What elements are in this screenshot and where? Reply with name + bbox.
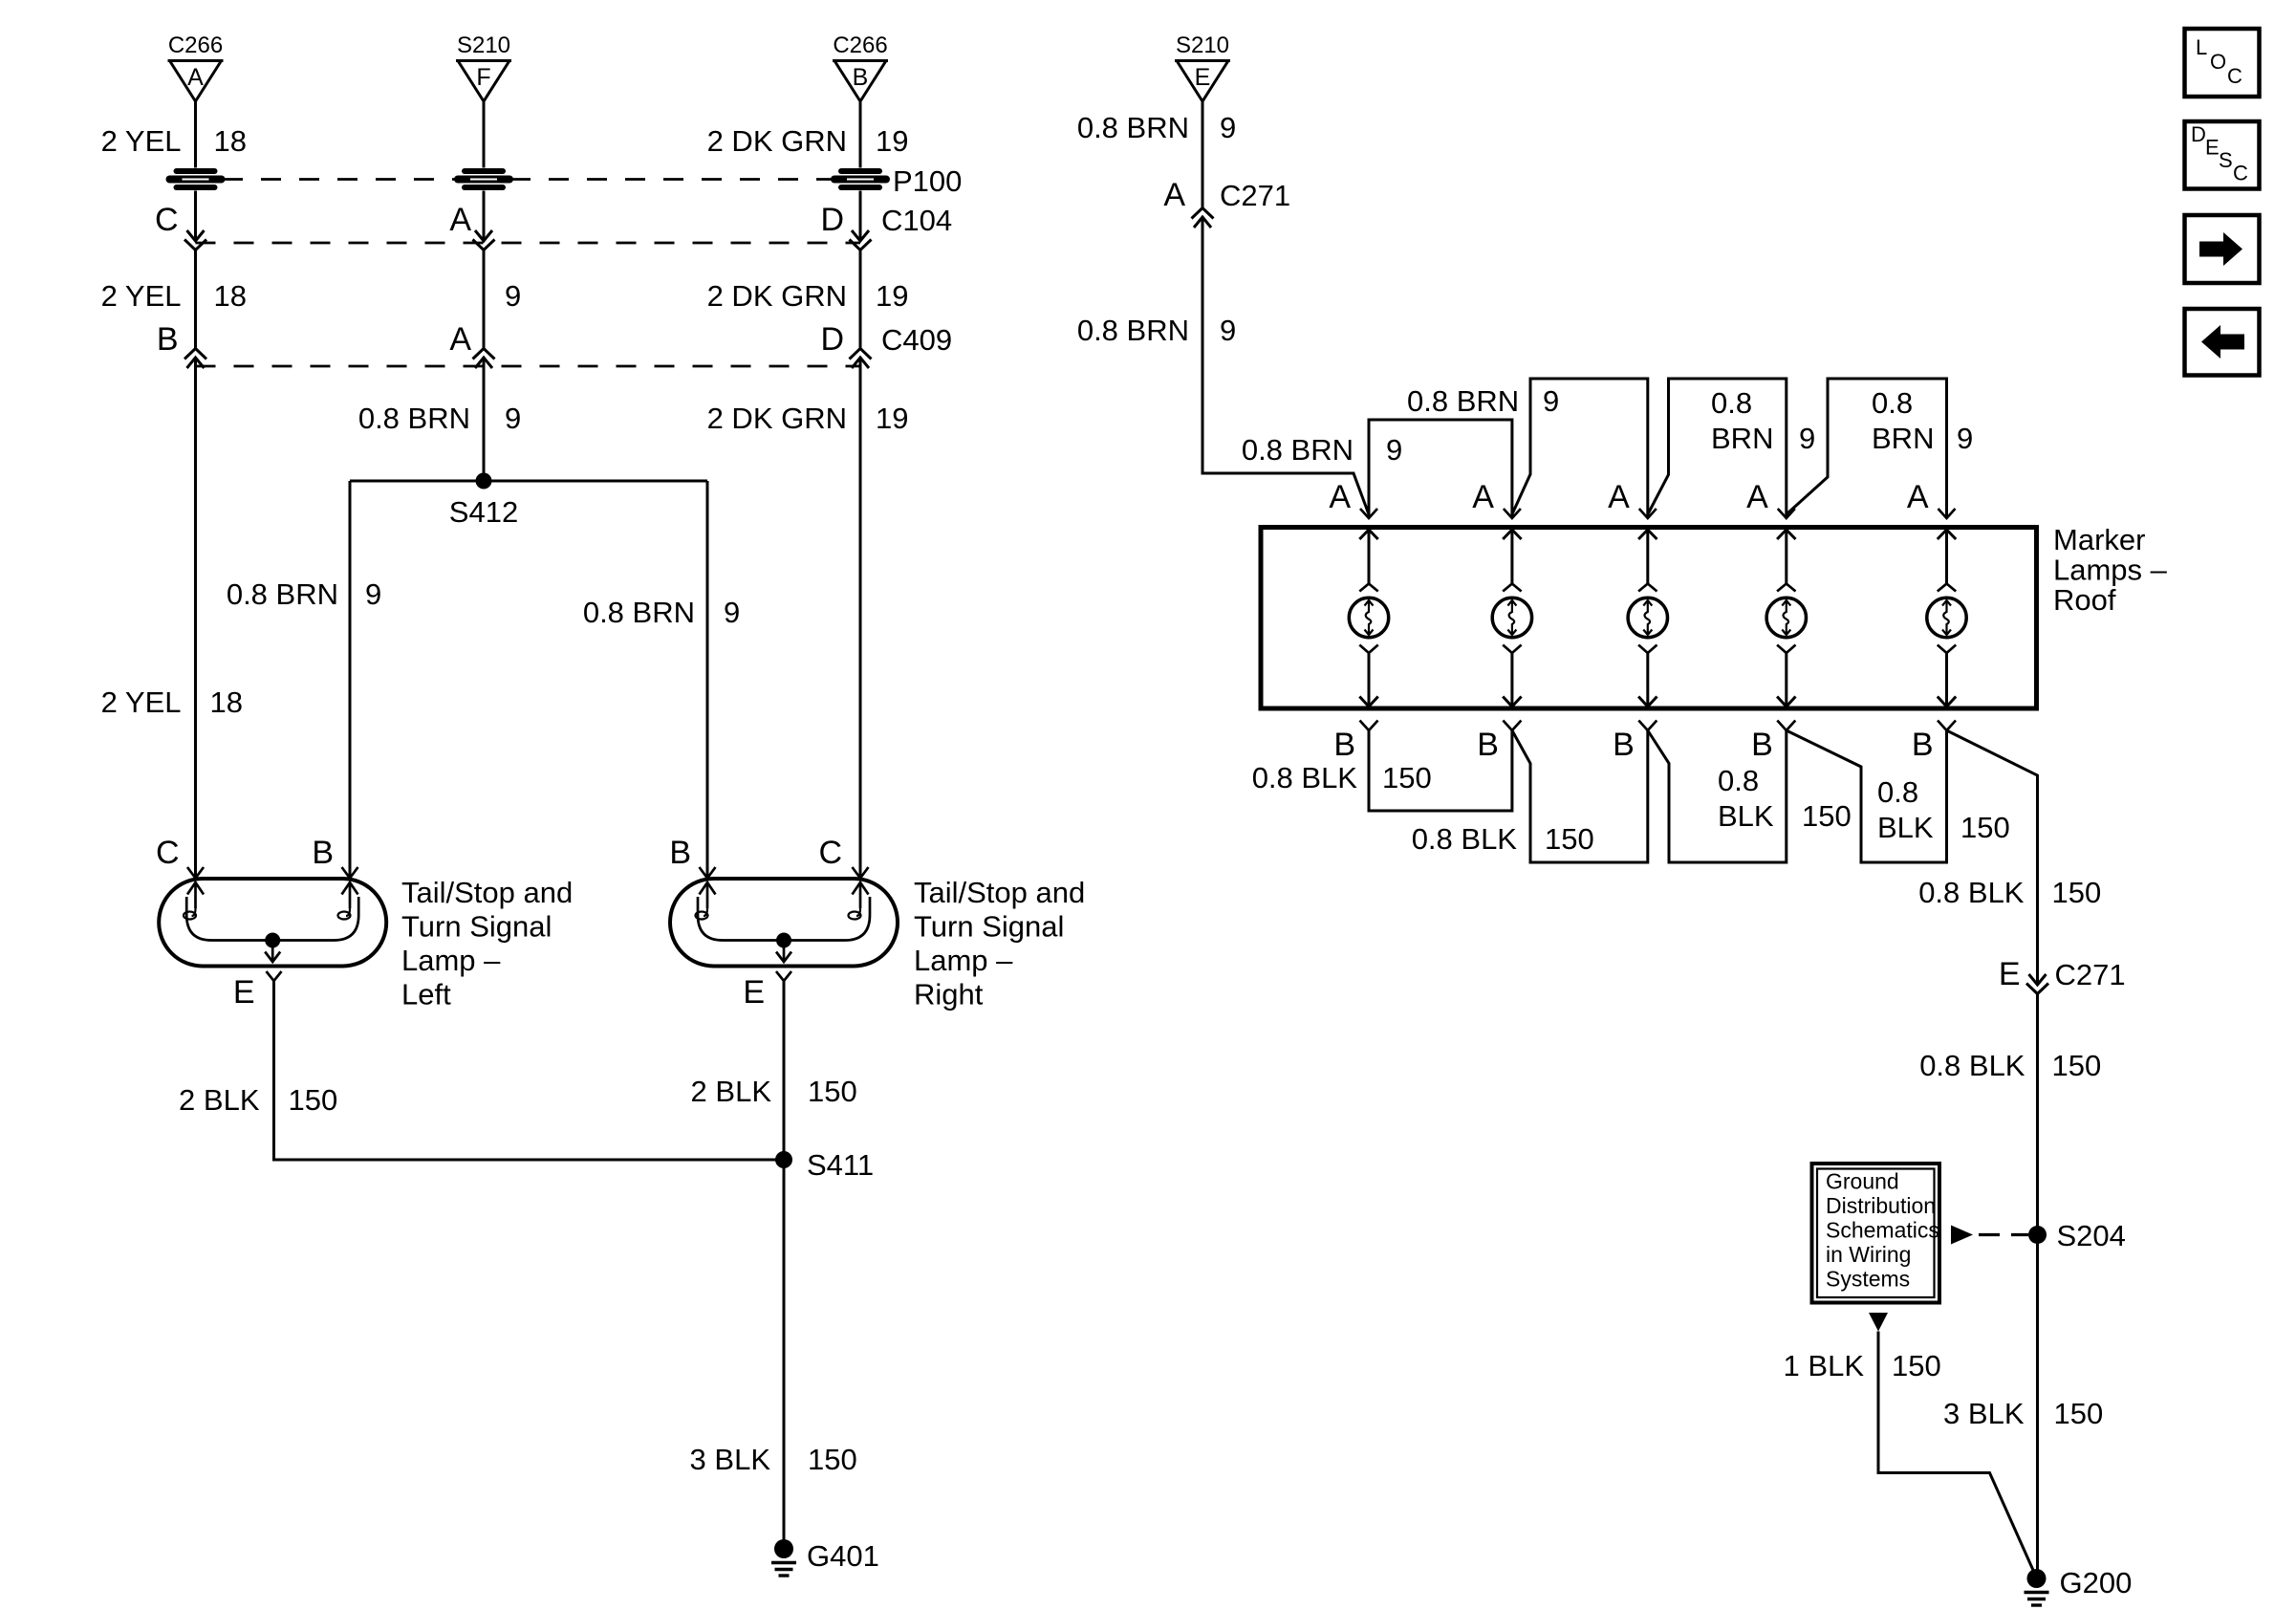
prev arrow icon box	[2185, 309, 2260, 376]
terminal chevron B left lamp	[342, 867, 358, 879]
svg-text:0.8 BLK: 0.8 BLK	[1918, 876, 2025, 909]
svg-text:B: B	[1613, 727, 1635, 763]
inline connector C104 on W3	[852, 230, 869, 241]
wire W3 from C266-B to grommet	[859, 101, 862, 168]
svg-text:2 BLK: 2 BLK	[179, 1083, 260, 1117]
svg-text:G401: G401	[807, 1539, 879, 1573]
svg-text:150: 150	[2054, 1397, 2104, 1430]
svg-text:18: 18	[214, 124, 247, 158]
wire E left lamp down and right to S411	[274, 981, 785, 1160]
terminal chevron C right lamp	[853, 867, 869, 879]
svg-text:150: 150	[1802, 799, 1852, 833]
svg-text:2 DK GRN: 2 DK GRN	[707, 124, 847, 158]
svg-text:Tail/Stop and: Tail/Stop and	[914, 876, 1085, 909]
svg-text:L: L	[2196, 35, 2207, 59]
svg-text:C104: C104	[881, 204, 952, 237]
inline connector C271-A	[1194, 217, 1211, 228]
triangle tap below box	[1869, 1313, 1888, 1332]
svg-text:F: F	[476, 64, 490, 91]
DESC icon box	[2185, 121, 2260, 189]
svg-text:C: C	[2227, 64, 2242, 88]
svg-text:0.8 BRN: 0.8 BRN	[1077, 314, 1189, 347]
wire link B3	[1648, 730, 1787, 862]
svg-text:E: E	[2205, 136, 2220, 160]
svg-text:A: A	[1472, 479, 1494, 515]
svg-text:2 DK GRN: 2 DK GRN	[707, 279, 847, 313]
terminal chevron A marker lamp 3	[1639, 509, 1657, 518]
svg-text:A: A	[1163, 177, 1185, 213]
dashed connector line C104	[196, 242, 861, 245]
ground G401	[774, 1539, 793, 1558]
dashed firewall line P100	[223, 178, 457, 181]
svg-text:A: A	[449, 321, 471, 358]
svg-text:Roof: Roof	[2053, 583, 2116, 617]
svg-text:B: B	[157, 321, 179, 358]
wire W3 C104 to C409	[859, 250, 862, 349]
terminal chevron A marker lamp 4	[1778, 509, 1795, 518]
svg-text:D: D	[2191, 122, 2206, 146]
svg-text:S210: S210	[1176, 33, 1229, 58]
svg-text:0.8: 0.8	[1718, 764, 1759, 797]
wire W2 C104 to C409	[483, 250, 486, 349]
wire W1 grommet to C104	[194, 191, 197, 242]
svg-text:S: S	[2219, 148, 2233, 172]
svg-text:0.8 BLK: 0.8 BLK	[1919, 1049, 2025, 1082]
terminal chevron C left lamp	[187, 867, 204, 879]
svg-text:B: B	[853, 64, 869, 91]
inline connector C409 on W2	[475, 358, 492, 368]
terminal chevron E right lamp	[776, 971, 791, 981]
wire W2 C409 to splice S412	[483, 358, 486, 481]
svg-text:19: 19	[876, 402, 908, 435]
terminal chevron B marker lamp 3	[1638, 721, 1657, 731]
tail/stop and turn signal lamp right	[670, 879, 898, 967]
inline connector C104 on W1	[187, 230, 205, 241]
svg-text:Left: Left	[401, 978, 451, 1012]
svg-text:C: C	[2233, 162, 2248, 185]
terminal chevron E left lamp	[267, 971, 282, 981]
svg-text:9: 9	[1957, 422, 1973, 455]
svg-text:150: 150	[1892, 1349, 1941, 1382]
wire link A2	[1512, 379, 1648, 517]
svg-text:B: B	[1751, 727, 1773, 763]
wire W3 C409 to right lamp pin C	[859, 358, 862, 879]
svg-text:B: B	[1333, 727, 1355, 763]
splice S412 dot	[476, 473, 492, 490]
svg-text:C409: C409	[881, 323, 952, 357]
svg-text:0.8 BRN: 0.8 BRN	[1077, 111, 1189, 144]
terminal chevron B marker lamp 4	[1777, 721, 1795, 731]
svg-text:150: 150	[2052, 876, 2102, 909]
tail/stop and turn signal lamp left	[159, 879, 386, 967]
svg-text:D: D	[820, 202, 844, 238]
marker lamp bulb 4	[1777, 530, 1795, 539]
wire link A4	[1787, 379, 1947, 517]
svg-text:18: 18	[214, 279, 247, 313]
svg-text:E: E	[1195, 64, 1211, 91]
svg-text:150: 150	[1960, 811, 2010, 844]
svg-text:B: B	[1477, 727, 1499, 763]
svg-text:0.8 BRN: 0.8 BRN	[227, 577, 338, 611]
svg-text:0.8: 0.8	[1872, 386, 1913, 420]
splice S204 dot	[2028, 1226, 2047, 1244]
svg-text:3 BLK: 3 BLK	[1943, 1397, 2025, 1430]
wire from S210-E down	[1202, 101, 1204, 207]
dashed connector line C409	[196, 365, 861, 368]
svg-text:A: A	[1329, 479, 1351, 515]
svg-text:C: C	[156, 835, 180, 871]
wire S412 right branch down	[706, 481, 709, 879]
svg-text:D: D	[820, 321, 844, 358]
svg-text:E: E	[1999, 956, 2021, 992]
svg-text:9: 9	[505, 279, 521, 313]
svg-text:Schematics: Schematics	[1826, 1218, 1939, 1243]
wire W1 C104 to C409	[194, 250, 197, 349]
arrowhead from box to S204	[1951, 1226, 1973, 1245]
svg-text:9: 9	[1799, 422, 1815, 455]
wire S411 to G401	[783, 1160, 786, 1549]
wire S204 to G200	[2036, 1235, 2039, 1579]
svg-text:3 BLK: 3 BLK	[690, 1443, 771, 1476]
svg-text:BRN: BRN	[1711, 422, 1773, 455]
svg-text:Right: Right	[914, 978, 984, 1012]
svg-text:9: 9	[505, 402, 521, 435]
svg-text:P100: P100	[893, 164, 962, 198]
svg-text:A: A	[1907, 479, 1929, 515]
svg-text:150: 150	[1545, 822, 1594, 856]
svg-text:E: E	[233, 974, 255, 1011]
wire C271-E to S204	[2036, 994, 2039, 1234]
svg-text:150: 150	[289, 1083, 338, 1117]
svg-text:Turn Signal: Turn Signal	[401, 910, 552, 944]
svg-text:150: 150	[808, 1075, 857, 1108]
terminal chevron B marker lamp 2	[1503, 721, 1521, 731]
svg-text:C: C	[155, 202, 179, 238]
terminal chevron A marker lamp 2	[1504, 509, 1521, 518]
inline connector C104 on W2	[475, 230, 492, 241]
svg-text:2 BLK: 2 BLK	[691, 1075, 772, 1108]
marker lamp bulb 1	[1359, 530, 1377, 539]
svg-text:18: 18	[210, 685, 243, 719]
marker lamp bulb 5	[1938, 530, 1956, 539]
svg-text:9: 9	[1386, 433, 1402, 467]
svg-text:C266: C266	[168, 33, 223, 58]
svg-text:S411: S411	[807, 1148, 874, 1182]
svg-text:0.8: 0.8	[1711, 386, 1752, 420]
svg-text:2 DK GRN: 2 DK GRN	[707, 402, 847, 435]
svg-text:S204: S204	[2057, 1219, 2126, 1252]
svg-text:0.8 BRN: 0.8 BRN	[1407, 384, 1519, 418]
marker lamp bulb 2	[1503, 530, 1521, 539]
terminal chevron B marker lamp 1	[1360, 721, 1378, 731]
wire link B4	[1787, 730, 1947, 862]
svg-text:BLK: BLK	[1877, 811, 1934, 844]
svg-text:9: 9	[365, 577, 381, 611]
svg-text:C271: C271	[1220, 179, 1290, 212]
svg-text:9: 9	[724, 596, 740, 629]
svg-text:Ground: Ground	[1826, 1169, 1899, 1194]
svg-text:O: O	[2210, 50, 2226, 74]
svg-text:A: A	[187, 64, 204, 91]
svg-text:S412: S412	[449, 495, 518, 529]
wire W2 from S210-F to grommet	[483, 101, 486, 168]
wire W1 C409 to left lamp pin C	[194, 358, 197, 879]
svg-text:Systems: Systems	[1826, 1267, 1910, 1292]
svg-text:Lamps –: Lamps –	[2053, 554, 2168, 587]
terminal chevron B right lamp	[700, 867, 716, 879]
svg-text:19: 19	[876, 124, 908, 158]
svg-text:Turn Signal: Turn Signal	[914, 910, 1064, 944]
svg-text:B: B	[312, 835, 334, 871]
terminal chevron B marker lamp 5	[1938, 721, 1956, 731]
wire S412 left branch down	[349, 481, 352, 879]
dashed link to S204	[1979, 1233, 2000, 1236]
splice S412 horizontal	[350, 480, 707, 483]
svg-text:9: 9	[1543, 384, 1559, 418]
svg-text:0.8 BRN: 0.8 BRN	[1242, 433, 1354, 467]
wire link B2	[1512, 730, 1648, 862]
grommet P100 on wire W1	[177, 168, 215, 174]
svg-text:0.8 BLK: 0.8 BLK	[1412, 822, 1518, 856]
svg-text:0.8 BRN: 0.8 BRN	[583, 596, 695, 629]
wire link B1	[1369, 730, 1512, 811]
svg-text:150: 150	[808, 1443, 857, 1476]
svg-text:in Wiring: in Wiring	[1826, 1242, 1911, 1267]
svg-text:A: A	[1608, 479, 1630, 515]
svg-text:150: 150	[1382, 761, 1432, 794]
svg-text:0.8: 0.8	[1877, 775, 1918, 809]
svg-text:A: A	[1746, 479, 1768, 515]
svg-text:Distribution: Distribution	[1826, 1193, 1936, 1218]
svg-text:E: E	[743, 974, 765, 1011]
svg-text:2 YEL: 2 YEL	[101, 279, 182, 313]
svg-text:BRN: BRN	[1872, 422, 1934, 455]
wire C271 to corner and to lamp1	[1202, 217, 1369, 514]
svg-text:G200: G200	[2060, 1566, 2133, 1599]
wire link A1	[1369, 420, 1512, 517]
svg-text:0.8 BLK: 0.8 BLK	[1252, 761, 1358, 794]
svg-text:9: 9	[1220, 111, 1236, 144]
svg-text:C271: C271	[2055, 958, 2126, 991]
terminal chevron A marker lamp 1	[1360, 509, 1377, 518]
svg-text:Lamp –: Lamp –	[914, 944, 1013, 977]
LOC icon box	[2185, 29, 2260, 97]
wire from box tap to G200	[1878, 1332, 2036, 1577]
grommet P100 on wire W3	[841, 168, 879, 174]
wire link A3	[1648, 379, 1787, 517]
wire W2 grommet to C104	[483, 191, 486, 242]
svg-text:2 YEL: 2 YEL	[101, 685, 182, 719]
inline connector C271-E	[2029, 974, 2047, 985]
svg-text:A: A	[449, 202, 471, 238]
splice S411 dot	[775, 1151, 792, 1168]
grommet P100 on wire W2	[465, 168, 503, 174]
wire lamp5 B to ground wire	[1947, 730, 2038, 985]
svg-text:Tail/Stop and: Tail/Stop and	[401, 876, 573, 909]
svg-text:B: B	[669, 835, 691, 871]
next arrow icon box	[2185, 215, 2260, 283]
svg-text:Lamp –: Lamp –	[401, 944, 501, 977]
svg-text:2 YEL: 2 YEL	[101, 124, 182, 158]
svg-text:C266: C266	[833, 33, 887, 58]
marker lamps roof box	[1261, 528, 2037, 709]
marker lamp bulb 3	[1638, 530, 1657, 539]
svg-text:0.8 BRN: 0.8 BRN	[358, 402, 470, 435]
svg-text:19: 19	[876, 279, 908, 313]
svg-text:S210: S210	[457, 33, 510, 58]
svg-text:Marker: Marker	[2053, 523, 2145, 556]
svg-text:B: B	[1912, 727, 1934, 763]
wire E right lamp down to S411	[783, 981, 786, 1160]
inline connector C409 on W3	[852, 358, 869, 368]
svg-text:1 BLK: 1 BLK	[1784, 1349, 1865, 1382]
svg-text:150: 150	[2052, 1049, 2102, 1082]
terminal chevron A marker lamp 5	[1939, 509, 1956, 518]
inline connector C409 on W1	[187, 358, 205, 368]
ground G200	[2027, 1569, 2047, 1588]
svg-text:9: 9	[1220, 314, 1236, 347]
svg-text:C: C	[818, 835, 842, 871]
wire W1 from C266-A to grommet	[194, 101, 197, 168]
ground distribution schematics box	[1812, 1164, 1940, 1303]
svg-text:BLK: BLK	[1718, 799, 1774, 833]
wire W3 grommet to C104	[859, 191, 862, 242]
